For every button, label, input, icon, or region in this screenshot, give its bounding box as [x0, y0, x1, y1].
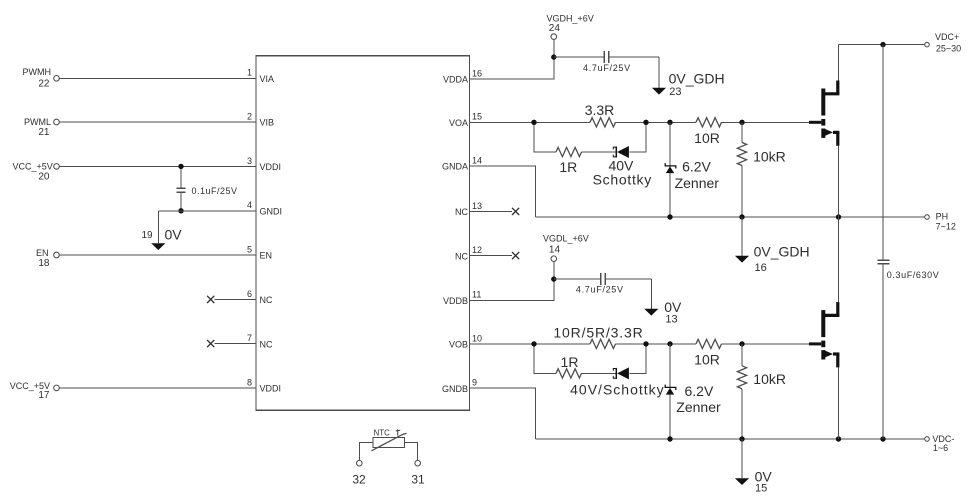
svg-text:VOB: VOB: [449, 340, 468, 350]
svg-text:9: 9: [472, 378, 477, 388]
svg-text:VDC+: VDC+: [935, 32, 959, 42]
wire NTC right lead: [405, 442, 418, 460]
zener diode Z2 6.2V: [665, 385, 676, 395]
zener diode Z1 6.2V: [665, 163, 676, 173]
resistor 3.3R: [585, 102, 616, 127]
svg-text:2: 2: [247, 111, 252, 121]
svg-text:16: 16: [472, 68, 482, 78]
capacitor C4 0.3uF/630V bus: [878, 45, 940, 439]
svg-text:7: 7: [247, 333, 252, 343]
wire VCC to pin 3: [59, 165, 256, 167]
svg-text:3.3R: 3.3R: [585, 102, 615, 118]
pin 10 VOB: [449, 333, 482, 349]
resistor 1R lower: [556, 354, 582, 378]
svg-text:PWMH: PWMH: [23, 67, 52, 77]
pin 9 GNDB: [442, 378, 477, 394]
svg-text:15: 15: [472, 112, 482, 122]
svg-text:VDDI: VDDI: [260, 162, 282, 172]
svg-text:10kR: 10kR: [753, 371, 786, 387]
node junction zener lower top: [667, 341, 672, 346]
svg-text:NC: NC: [455, 251, 468, 261]
svg-text:22: 22: [38, 79, 50, 90]
svg-text:Zenner: Zenner: [675, 175, 720, 191]
resistor 1R upper: [556, 147, 582, 175]
ground 19 0V: [141, 211, 182, 250]
svg-text:6: 6: [247, 289, 252, 299]
svg-text:13: 13: [665, 313, 677, 325]
svg-text:21: 21: [38, 127, 50, 138]
svg-text:VIB: VIB: [260, 118, 275, 128]
pin 14 GNDA: [442, 155, 482, 171]
svg-text:GNDB: GNDB: [442, 384, 468, 394]
wire pin 16 VDDA: [470, 57, 555, 79]
wire 10R to gate Q1: [722, 121, 810, 123]
svg-text:4.7uF/25V: 4.7uF/25V: [576, 284, 624, 294]
node junction VGDL: [551, 276, 556, 281]
svg-text:EN: EN: [36, 248, 49, 258]
svg-text:6.2V: 6.2V: [685, 383, 714, 399]
no-connect X pin 7: [207, 340, 214, 347]
svg-text:GNDI: GNDI: [260, 207, 283, 217]
svg-text:NC: NC: [260, 295, 273, 305]
wire EN to pin 5: [59, 254, 256, 256]
wire X to pin 7: [214, 343, 256, 345]
wire 10kR upper top: [741, 122, 743, 142]
wire VDC+ rail: [839, 44, 925, 46]
wire pin 12 NC: [470, 255, 513, 257]
node junction 10kR/ground PH: [739, 214, 744, 219]
wire pin 4 GNDI: [158, 210, 256, 212]
svg-text:10: 10: [472, 333, 482, 343]
svg-text:NC: NC: [260, 339, 273, 349]
node junction VOA left: [531, 120, 536, 125]
terminal VGDH_+6V 24: [547, 14, 594, 40]
ground 0V 15: [735, 439, 772, 495]
wire PWMH to pin 1: [59, 77, 256, 79]
transistor Q2 low-side MOSFET: [809, 302, 839, 367]
wire Q1 source to PH rail: [838, 146, 840, 217]
wire X to pin 6: [214, 298, 256, 300]
ground 0V_GDH 16: [735, 217, 810, 274]
svg-text:14: 14: [472, 155, 482, 165]
svg-text:VDDI: VDDI: [260, 384, 282, 394]
wire VDC- rail: [536, 438, 925, 440]
terminal PWML 21: [24, 117, 59, 138]
wire pin 13 NC: [470, 210, 513, 212]
pin 8 VDDI: [247, 377, 281, 393]
pin 5 EN: [247, 244, 272, 260]
svg-text:0V: 0V: [165, 226, 183, 242]
wire Q1 drain to VDC+ rail: [838, 45, 840, 81]
svg-text:12: 12: [472, 245, 482, 255]
svg-text:14: 14: [549, 244, 561, 255]
pin 13 NC: [455, 201, 482, 217]
wire VGDH down to junction: [553, 39, 555, 57]
capacitor C1 0.1uF/25V: [176, 166, 237, 210]
capacitor C3 4.7uF/25V: [554, 273, 652, 294]
node junction bus cap bottom: [880, 436, 885, 441]
svg-text:0.1uF/25V: 0.1uF/25V: [192, 186, 238, 196]
wire PH rail: [536, 216, 925, 218]
no-connect X pin 13: [512, 208, 519, 215]
node junction zener upper top: [667, 120, 672, 125]
node junction Q2 source: [836, 436, 841, 441]
wire 10R to gate Q2: [722, 343, 810, 345]
svg-text:PH: PH: [936, 212, 949, 222]
wire Q2 drain to PH rail: [838, 217, 840, 302]
resistor 10R/5R/3.3R: [553, 325, 643, 349]
svg-text:EN: EN: [260, 251, 273, 261]
svg-text:VGDL_+6V: VGDL_+6V: [543, 234, 589, 244]
ground 0V_GDH 23: [652, 57, 725, 98]
wire pin 14 GNDA to PH rail: [470, 166, 536, 217]
terminal PWMH 22: [23, 67, 60, 89]
svg-text:8: 8: [247, 377, 252, 387]
svg-text:4: 4: [247, 200, 252, 210]
wire pin 10 VOB: [470, 343, 535, 345]
svg-text:10R: 10R: [694, 352, 720, 368]
node junction pin4/C1: [178, 208, 183, 213]
thermistor NTC: [372, 428, 407, 450]
pin 16 VDDA: [443, 68, 482, 84]
wire 10kR upper bottom: [741, 166, 743, 218]
svg-text:5: 5: [247, 244, 252, 254]
op-amp U1 gate-driver IC body: [256, 56, 470, 411]
wire Q2 source to VDC- rail: [838, 367, 840, 439]
svg-text:11: 11: [472, 290, 481, 300]
svg-text:VOA: VOA: [449, 118, 468, 128]
wire NTC left lead: [359, 442, 373, 460]
terminal VCC_+5V 20: [13, 162, 60, 183]
resistor 10R upper: [694, 118, 721, 146]
terminal PH 7~12: [925, 212, 956, 232]
ground 0V 13: [644, 279, 682, 325]
wire zener upper: [669, 122, 671, 217]
pin 11 VDDB: [443, 290, 481, 306]
svg-text:PWML: PWML: [24, 117, 51, 127]
node junction 10kR/ground VDC-: [739, 436, 744, 441]
node junction Q1 source / Q2 drain: [836, 214, 841, 219]
terminal 31: [411, 460, 425, 486]
svg-text:19: 19: [141, 230, 153, 241]
wire 10kR lower bottom: [741, 389, 743, 439]
wire PWML to pin 2: [59, 121, 256, 123]
pin 1 VIA: [247, 68, 274, 84]
svg-text:25~30: 25~30: [936, 44, 961, 54]
terminal EN 18: [36, 248, 59, 269]
pin 15 VOA: [449, 112, 482, 128]
svg-text:VDDB: VDDB: [443, 296, 468, 306]
svg-text:20: 20: [38, 171, 50, 182]
svg-text:10kR: 10kR: [753, 149, 786, 165]
svg-text:18: 18: [38, 258, 50, 269]
wire pin 9 GNDB to VDC- rail: [470, 388, 536, 439]
svg-text:Zenner: Zenner: [676, 399, 721, 415]
terminal 32: [352, 460, 366, 486]
node junction gate upper: [739, 120, 744, 125]
wire 10kR lower top: [741, 344, 743, 366]
wire VGDL down to junction: [553, 262, 555, 280]
label 6.2V Zenner lower: [676, 383, 721, 415]
wire VOA row segment: [534, 121, 590, 123]
wire VOB row segment: [534, 343, 590, 345]
resistor 10kR upper: [737, 143, 785, 166]
svg-text:32: 32: [352, 472, 366, 486]
svg-text:10R: 10R: [694, 130, 720, 146]
svg-text:7~12: 7~12: [936, 222, 956, 232]
wire 1R branch upper: [534, 122, 646, 152]
svg-text:0.3uF/630V: 0.3uF/630V: [887, 270, 940, 280]
pin 7 NC: [247, 333, 273, 349]
wire VCC to pin 8: [59, 387, 256, 389]
node junction zener lower bottom: [667, 436, 672, 441]
capacitor C2 4.7uF/25V: [554, 51, 659, 73]
svg-text:NTC: NTC: [374, 428, 391, 437]
terminal VDC+ 25~30: [925, 32, 961, 54]
diode D2 40V Schottky: [613, 367, 629, 379]
wire zener lower: [669, 344, 671, 439]
no-connect X pin 12: [512, 252, 519, 259]
svg-text:1R: 1R: [559, 159, 577, 175]
pin 6 NC: [247, 289, 273, 305]
diode D1 40V Schottky: [613, 146, 629, 158]
terminal VDC- 1~6: [925, 434, 955, 453]
svg-text:GNDA: GNDA: [442, 162, 468, 172]
pin 4 GNDI: [247, 200, 282, 216]
pin 3 VDDI: [247, 156, 281, 172]
pin 2 VIB: [247, 111, 274, 127]
node junction zener upper bottom: [667, 214, 672, 219]
svg-text:24: 24: [549, 23, 561, 34]
svg-text:13: 13: [472, 201, 482, 211]
svg-text:40V/Schottky: 40V/Schottky: [570, 382, 665, 398]
svg-text:VIA: VIA: [260, 74, 275, 84]
terminal VCC_+5V 17: [10, 381, 60, 401]
svg-text:4.7uF/25V: 4.7uF/25V: [583, 63, 631, 73]
terminal VGDL_+6V 14: [543, 234, 589, 262]
svg-text:16: 16: [755, 262, 767, 274]
resistor 10kR lower: [737, 366, 786, 389]
pin 12 NC: [455, 245, 482, 261]
svg-text:17: 17: [38, 390, 50, 401]
wire 3.3R to 10R: [616, 121, 697, 123]
svg-text:NC: NC: [455, 207, 468, 217]
no-connect X pin 6: [207, 296, 214, 303]
svg-text:31: 31: [411, 472, 425, 486]
node junction after resistor lower: [643, 341, 648, 346]
wire to 10R lower: [616, 343, 697, 345]
svg-text:Schottky: Schottky: [593, 171, 652, 187]
svg-text:6.2V: 6.2V: [682, 159, 711, 175]
node junction pin3/C1: [178, 164, 183, 169]
resistor 10R lower: [694, 339, 721, 367]
wire pin 11 VDDB: [470, 279, 555, 300]
svg-text:0V_GDH: 0V_GDH: [669, 70, 725, 86]
svg-text:0V_GDH: 0V_GDH: [754, 244, 810, 260]
label 6.2V Zenner upper: [675, 159, 720, 191]
node junction VGDH: [551, 54, 556, 59]
svg-text:1R: 1R: [561, 354, 579, 370]
node junction after 3.3R: [643, 120, 648, 125]
svg-text:VDDA: VDDA: [443, 75, 468, 85]
svg-text:1: 1: [247, 68, 252, 78]
svg-text:VCC_+5V: VCC_+5V: [13, 162, 53, 172]
node junction VDC+ bus: [880, 42, 885, 47]
svg-text:1~6: 1~6: [933, 443, 948, 453]
svg-text:15: 15: [755, 483, 767, 495]
label 40V Schottky: [593, 158, 652, 188]
wire 1R branch lower: [534, 344, 646, 374]
node junction gate lower: [739, 341, 744, 346]
svg-text:10R/5R/3.3R: 10R/5R/3.3R: [553, 325, 643, 341]
svg-text:23: 23: [669, 86, 681, 98]
transistor Q1 high-side MOSFET: [809, 81, 839, 146]
node junction VOB left: [531, 341, 536, 346]
svg-text:3: 3: [247, 156, 252, 166]
wire pin 15 VOA: [470, 121, 535, 123]
